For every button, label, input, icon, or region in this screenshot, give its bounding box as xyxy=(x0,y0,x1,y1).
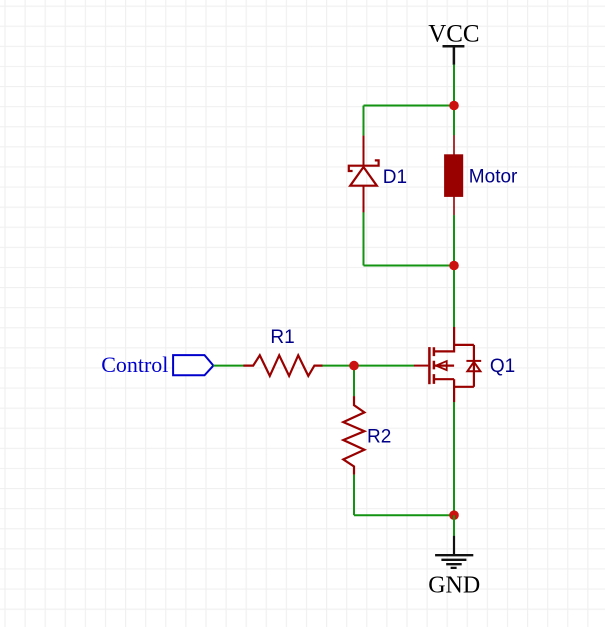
svg-text:GND: GND xyxy=(428,572,480,598)
wire node D to ground symbol xyxy=(453,515,455,536)
ground symbol bars xyxy=(435,555,473,568)
transistor Q1 drain stub xyxy=(434,350,454,352)
node D junction xyxy=(449,510,459,520)
node C junction xyxy=(349,361,359,371)
wire R2 to bottom wire xyxy=(353,475,355,516)
transistor Q1 source stub xyxy=(434,378,454,380)
pin Motor top xyxy=(453,135,455,155)
wire bottom branch horizontal to node B xyxy=(364,265,455,267)
wire port to R1 xyxy=(213,365,243,367)
resistor R2 xyxy=(343,396,364,475)
wire node C down to R2 xyxy=(353,366,355,397)
transistor Q1 body diode triangle xyxy=(467,362,480,371)
transistor Q1 body stub with arrow xyxy=(434,365,454,367)
pin D1 anode xyxy=(363,186,365,213)
transistor Q1 body diode vertical xyxy=(473,345,475,387)
wire D1 anode to bottom branch xyxy=(363,212,365,265)
svg-text:R1: R1 xyxy=(270,327,294,348)
port Control xyxy=(173,355,213,375)
pin Q1 source xyxy=(453,379,455,402)
resistor R1 xyxy=(243,355,322,376)
wire R1 to node C xyxy=(322,365,354,367)
wire top branch down to D1 cathode xyxy=(363,106,365,136)
power port VCC bar symbol xyxy=(443,46,465,65)
node A junction xyxy=(449,101,459,111)
transistor Q1 drain pin xyxy=(453,327,455,353)
pin Q1 gate xyxy=(414,365,428,367)
node B junction xyxy=(449,261,459,271)
transistor Q1 body diode bar xyxy=(466,360,481,362)
wire Motor to drain, passes node B xyxy=(453,215,455,327)
transistor Q1 drain branch to body diode xyxy=(454,344,474,346)
svg-text:Motor: Motor xyxy=(469,167,518,188)
ground symbol stem xyxy=(453,536,455,555)
wire bottom horizontal to node D xyxy=(354,514,454,516)
svg-text:D1: D1 xyxy=(383,167,407,188)
svg-text:R2: R2 xyxy=(367,427,391,448)
transistor Q1 source branch xyxy=(454,386,474,388)
svg-text:Control: Control xyxy=(101,352,168,377)
svg-text:Q1: Q1 xyxy=(490,356,515,377)
wire node A to D1 branch (top horizontal) xyxy=(364,105,455,107)
wire node C to gate pin xyxy=(354,365,414,367)
wire source to node D xyxy=(453,402,455,515)
pin D1 cathode xyxy=(363,136,365,165)
diode D1 zener cathode bar xyxy=(349,160,379,171)
motor M1 body xyxy=(445,155,463,197)
transistor Q1 arrow xyxy=(436,361,447,370)
transistor Q1 gate bar xyxy=(428,347,431,384)
transistor Q1 channel segments xyxy=(433,347,436,384)
pin Motor bottom xyxy=(453,196,455,215)
diode D1 triangle xyxy=(350,167,377,186)
svg-text:VCC: VCC xyxy=(428,21,479,48)
wire VCC stem to node A xyxy=(453,65,455,136)
